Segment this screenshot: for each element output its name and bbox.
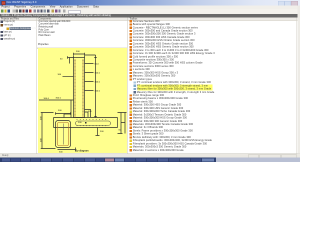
top-left bracket dim: [68, 56, 74, 63]
left tree panel: [0, 17, 37, 153]
right window border: [298, 6, 301, 154]
inner dotted reinforcement in block: [57, 122, 69, 146]
toolbox right border line: [295, 17, 298, 153]
svg-text:300.0: 300.0: [56, 98, 62, 100]
right toolbox panel: [128, 17, 298, 153]
svg-text:300: 300: [58, 74, 62, 76]
tiny labels: [41, 51, 122, 154]
middle panel: components list: [37, 17, 128, 153]
wall height dimension line: [85, 55, 97, 118]
window buttons: [278, 1, 285, 6]
rebar dots: [75, 60, 107, 126]
svg-text:300: 300: [88, 111, 92, 113]
top dimension line: [74, 53, 85, 58]
taskbar: [0, 158, 300, 162]
right leader lines: [63, 64, 94, 91]
svg-text:300: 300: [100, 131, 104, 133]
yellow canvas: [38, 48, 127, 153]
left dim line: [41, 113, 56, 149]
wall stem: [74, 58, 85, 118]
toolbar: [0, 9, 300, 15]
svg-text:300.0: 300.0: [95, 91, 101, 93]
right dim lines: [118, 113, 127, 134]
svg-text:60.0: 60.0: [95, 64, 100, 66]
dotted slot in base: [76, 121, 111, 126]
rebar bends at junction: [85, 110, 91, 118]
menu bar: [0, 6, 300, 10]
title text: [7, 2, 37, 5]
svg-text:300.0: 300.0: [95, 82, 101, 84]
left block (toe key): [56, 121, 71, 148]
svg-text:300.0: 300.0: [95, 73, 101, 75]
bottom dim: [58, 148, 76, 152]
svg-text:300: 300: [58, 110, 62, 112]
svg-text:300: 300: [78, 122, 82, 124]
status bar: [0, 153, 300, 158]
svg-text:By diagram: By diagram: [76, 150, 89, 153]
dark caption band: [0, 14, 298, 17]
under-base marker: [96, 128, 100, 136]
svg-text:300.0: 300.0: [44, 98, 50, 100]
base top dim: [56, 112, 71, 115]
wall rebar lines: [75, 59, 83, 118]
svg-text:300: 300: [76, 51, 80, 53]
app icon: [2, 1, 6, 5]
ground line and wall step: [39, 100, 74, 118]
base slab: [54, 118, 118, 128]
svg-text:60: 60: [60, 59, 63, 61]
title bar: [0, 0, 300, 6]
properties caption: [38, 44, 48, 46]
